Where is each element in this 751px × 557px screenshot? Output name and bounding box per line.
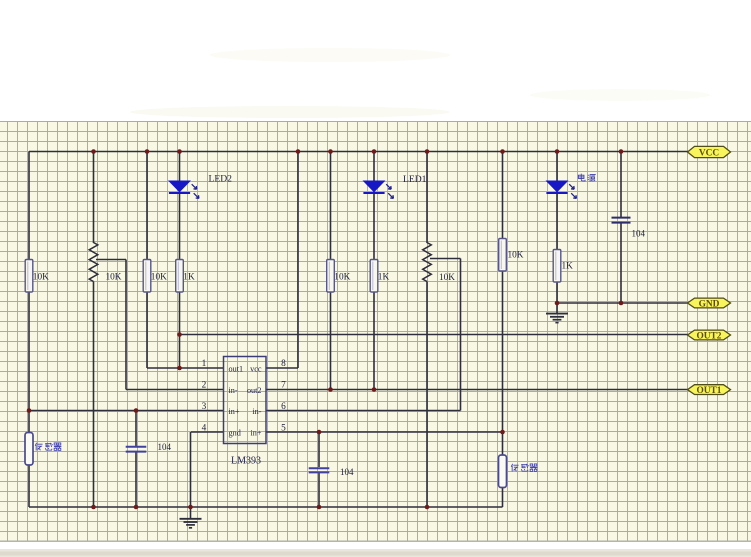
wire pin4 ground drop bbox=[190, 432, 192, 519]
junction bottom/C2 bbox=[317, 505, 322, 510]
svg-text:104: 104 bbox=[158, 442, 172, 452]
svg-text:vcc: vcc bbox=[250, 365, 262, 374]
junction rail/RP1 bbox=[91, 149, 96, 154]
wire LED2/R3 branch vertical bbox=[179, 152, 181, 369]
svg-text:2: 2 bbox=[202, 381, 207, 391]
wire pin1 wire bbox=[147, 367, 224, 369]
svg-text:10K: 10K bbox=[33, 273, 49, 283]
svg-text:in+: in+ bbox=[229, 407, 240, 416]
junction rail/RP2 bbox=[425, 149, 430, 154]
svg-text:LM393: LM393 bbox=[231, 456, 261, 467]
svg-text:1: 1 bbox=[202, 359, 207, 369]
svg-text:104: 104 bbox=[632, 229, 646, 239]
wire OUT2 net wire bbox=[180, 334, 689, 336]
svg-text:OUT1: OUT1 bbox=[696, 386, 721, 396]
wire bottom ground rail bbox=[29, 506, 503, 508]
wire C2 top lead bbox=[318, 432, 320, 467]
resistor R1 10K bbox=[25, 260, 49, 293]
junction rail/LED2 bbox=[177, 149, 182, 154]
svg-text:10K: 10K bbox=[508, 251, 524, 261]
svg-text:7: 7 bbox=[281, 381, 286, 391]
label 电源 (power) bbox=[578, 174, 595, 182]
sensor 传感器 (right photoresistor) bbox=[499, 455, 538, 488]
wire VCC rail bbox=[29, 151, 688, 153]
svg-text:in-: in- bbox=[229, 386, 238, 395]
svg-text:GND: GND bbox=[699, 299, 720, 309]
svg-text:10K: 10K bbox=[151, 273, 167, 283]
wire RP2 top lead bbox=[426, 152, 428, 244]
wire C3 top lead bbox=[620, 152, 622, 218]
wire R2 branch vertical bbox=[146, 152, 148, 369]
svg-text:3: 3 bbox=[202, 402, 207, 412]
junction pin5/sensor2 bbox=[500, 430, 505, 435]
svg-text:LED1: LED1 bbox=[403, 174, 427, 185]
svg-text:4: 4 bbox=[202, 424, 207, 434]
svg-text:10K: 10K bbox=[439, 273, 455, 283]
potentiometer RP1 10K bbox=[89, 243, 122, 283]
wire LED1/R5 branch vertical bbox=[373, 152, 375, 390]
svg-text:out2: out2 bbox=[247, 386, 262, 395]
junction bottom/RP1 bbox=[91, 505, 96, 510]
junction pin7/R5 bbox=[372, 387, 377, 392]
junction OUT2/LED2 branch bbox=[177, 332, 182, 337]
wire C1 top lead bbox=[135, 411, 137, 447]
junction bottom/RP2 bbox=[425, 505, 430, 510]
wire RP1 wiper tap horizontal bbox=[96, 259, 126, 261]
junction pin5/C2 bbox=[317, 430, 322, 435]
resistor R6 10K bbox=[499, 239, 524, 272]
junction bottom/C1 bbox=[134, 505, 139, 510]
LED LED1 bbox=[363, 181, 393, 198]
wire pin6 wire bbox=[266, 410, 461, 412]
wire GND net wire bbox=[557, 302, 688, 304]
junction rail/R2 bbox=[145, 149, 150, 154]
capacitor C1 104 bbox=[126, 442, 172, 452]
junction rail/C3 bbox=[619, 149, 624, 154]
port VCC bbox=[688, 146, 731, 158]
wire RP1 top lead bbox=[93, 152, 95, 244]
svg-text:VCC: VCC bbox=[699, 148, 720, 158]
pin numbers U1 bbox=[202, 359, 287, 434]
svg-text:in-: in- bbox=[252, 407, 261, 416]
junction pin1/LED2 branch bbox=[177, 366, 182, 371]
capacitor C3 104 bbox=[612, 218, 646, 239]
wire RP2 wiper tap horizontal bbox=[430, 258, 461, 260]
white top margin bbox=[0, 0, 751, 121]
svg-text:1K: 1K bbox=[378, 273, 390, 283]
svg-text:8: 8 bbox=[281, 359, 286, 369]
resistor R7 1K bbox=[553, 250, 573, 283]
port OUT2 bbox=[688, 330, 731, 341]
wire LED D3/R7 branch vertical bbox=[556, 152, 558, 314]
wire C2 bottom lead bbox=[318, 473, 320, 507]
wire pin8 wire bbox=[266, 367, 298, 369]
svg-text:1K: 1K bbox=[183, 273, 195, 283]
capacitor C2 104 bbox=[309, 467, 354, 477]
junction pin7/R4 bbox=[328, 387, 333, 392]
svg-text:OUT2: OUT2 bbox=[696, 331, 721, 341]
svg-text:out1: out1 bbox=[229, 365, 244, 374]
junction pin3/left branch bbox=[27, 408, 32, 413]
wire RP2 wiper tap vertical to pin6 bbox=[460, 259, 462, 411]
junction GND net/R7 bbox=[555, 301, 560, 306]
wire RP1 wiper tap vertical to pin2 bbox=[125, 260, 127, 390]
wire pin2 wire bbox=[126, 389, 224, 391]
svg-text:in+: in+ bbox=[251, 429, 262, 438]
resistor R3 1K bbox=[176, 260, 195, 293]
potentiometer RP2 10K bbox=[423, 243, 456, 284]
svg-text:1K: 1K bbox=[562, 262, 574, 272]
wire pin8 VCC riser bbox=[297, 152, 299, 369]
ground bottom rail earth bbox=[180, 519, 202, 528]
resistor R5 1K bbox=[370, 260, 389, 293]
junction pin3/C1 bbox=[134, 408, 139, 413]
LED LED2 bbox=[169, 181, 199, 198]
wire R4 branch vertical bbox=[330, 152, 332, 390]
svg-text:10K: 10K bbox=[106, 273, 122, 283]
junction GND net/C3 bbox=[619, 301, 624, 306]
wire pin4 wire bbox=[191, 431, 224, 433]
resistor R2 10K bbox=[143, 260, 167, 293]
resistor R4 10K bbox=[327, 260, 351, 293]
port GND bbox=[688, 298, 731, 309]
wire RP1 bottom lead to ground rail bbox=[93, 282, 95, 508]
svg-text:10K: 10K bbox=[334, 273, 350, 283]
junction rail/R4 bbox=[328, 149, 333, 154]
svg-text:gnd: gnd bbox=[229, 429, 241, 438]
junction rail/R6 bbox=[500, 149, 505, 154]
junction rail/pin8 riser bbox=[296, 149, 301, 154]
wire R6/sensor2 branch vertical bbox=[502, 152, 504, 508]
ground near GND port bbox=[546, 314, 568, 323]
junction rail/LED D3 bbox=[555, 149, 560, 154]
schematic grid background bbox=[0, 121, 751, 541]
wire pin5 wire bbox=[266, 431, 503, 433]
svg-text:6: 6 bbox=[281, 402, 286, 412]
wire left branch vertical (VCC to bottom) bbox=[28, 152, 30, 508]
wire pin7 / OUT1 net wire bbox=[266, 389, 688, 391]
wire C1 bottom lead bbox=[135, 452, 137, 507]
svg-text:LED2: LED2 bbox=[209, 174, 233, 185]
LED LED D3 power indicator bbox=[546, 181, 576, 198]
wire RP2 bottom lead to ground rail bbox=[426, 282, 428, 508]
port OUT1 bbox=[688, 385, 731, 396]
svg-text:5: 5 bbox=[281, 424, 286, 434]
junction rail/LED1 bbox=[372, 149, 377, 154]
svg-text:104: 104 bbox=[340, 467, 354, 477]
wire C3 bottom lead bbox=[620, 223, 622, 303]
junction bottom/earth bbox=[188, 505, 193, 510]
wire pin3 wire bbox=[29, 410, 224, 412]
sensor 传感器 (left photoresistor) bbox=[25, 433, 61, 466]
bottom window edge band bbox=[0, 541, 751, 557]
op-amp U1 LM393 comparator box bbox=[224, 357, 267, 444]
